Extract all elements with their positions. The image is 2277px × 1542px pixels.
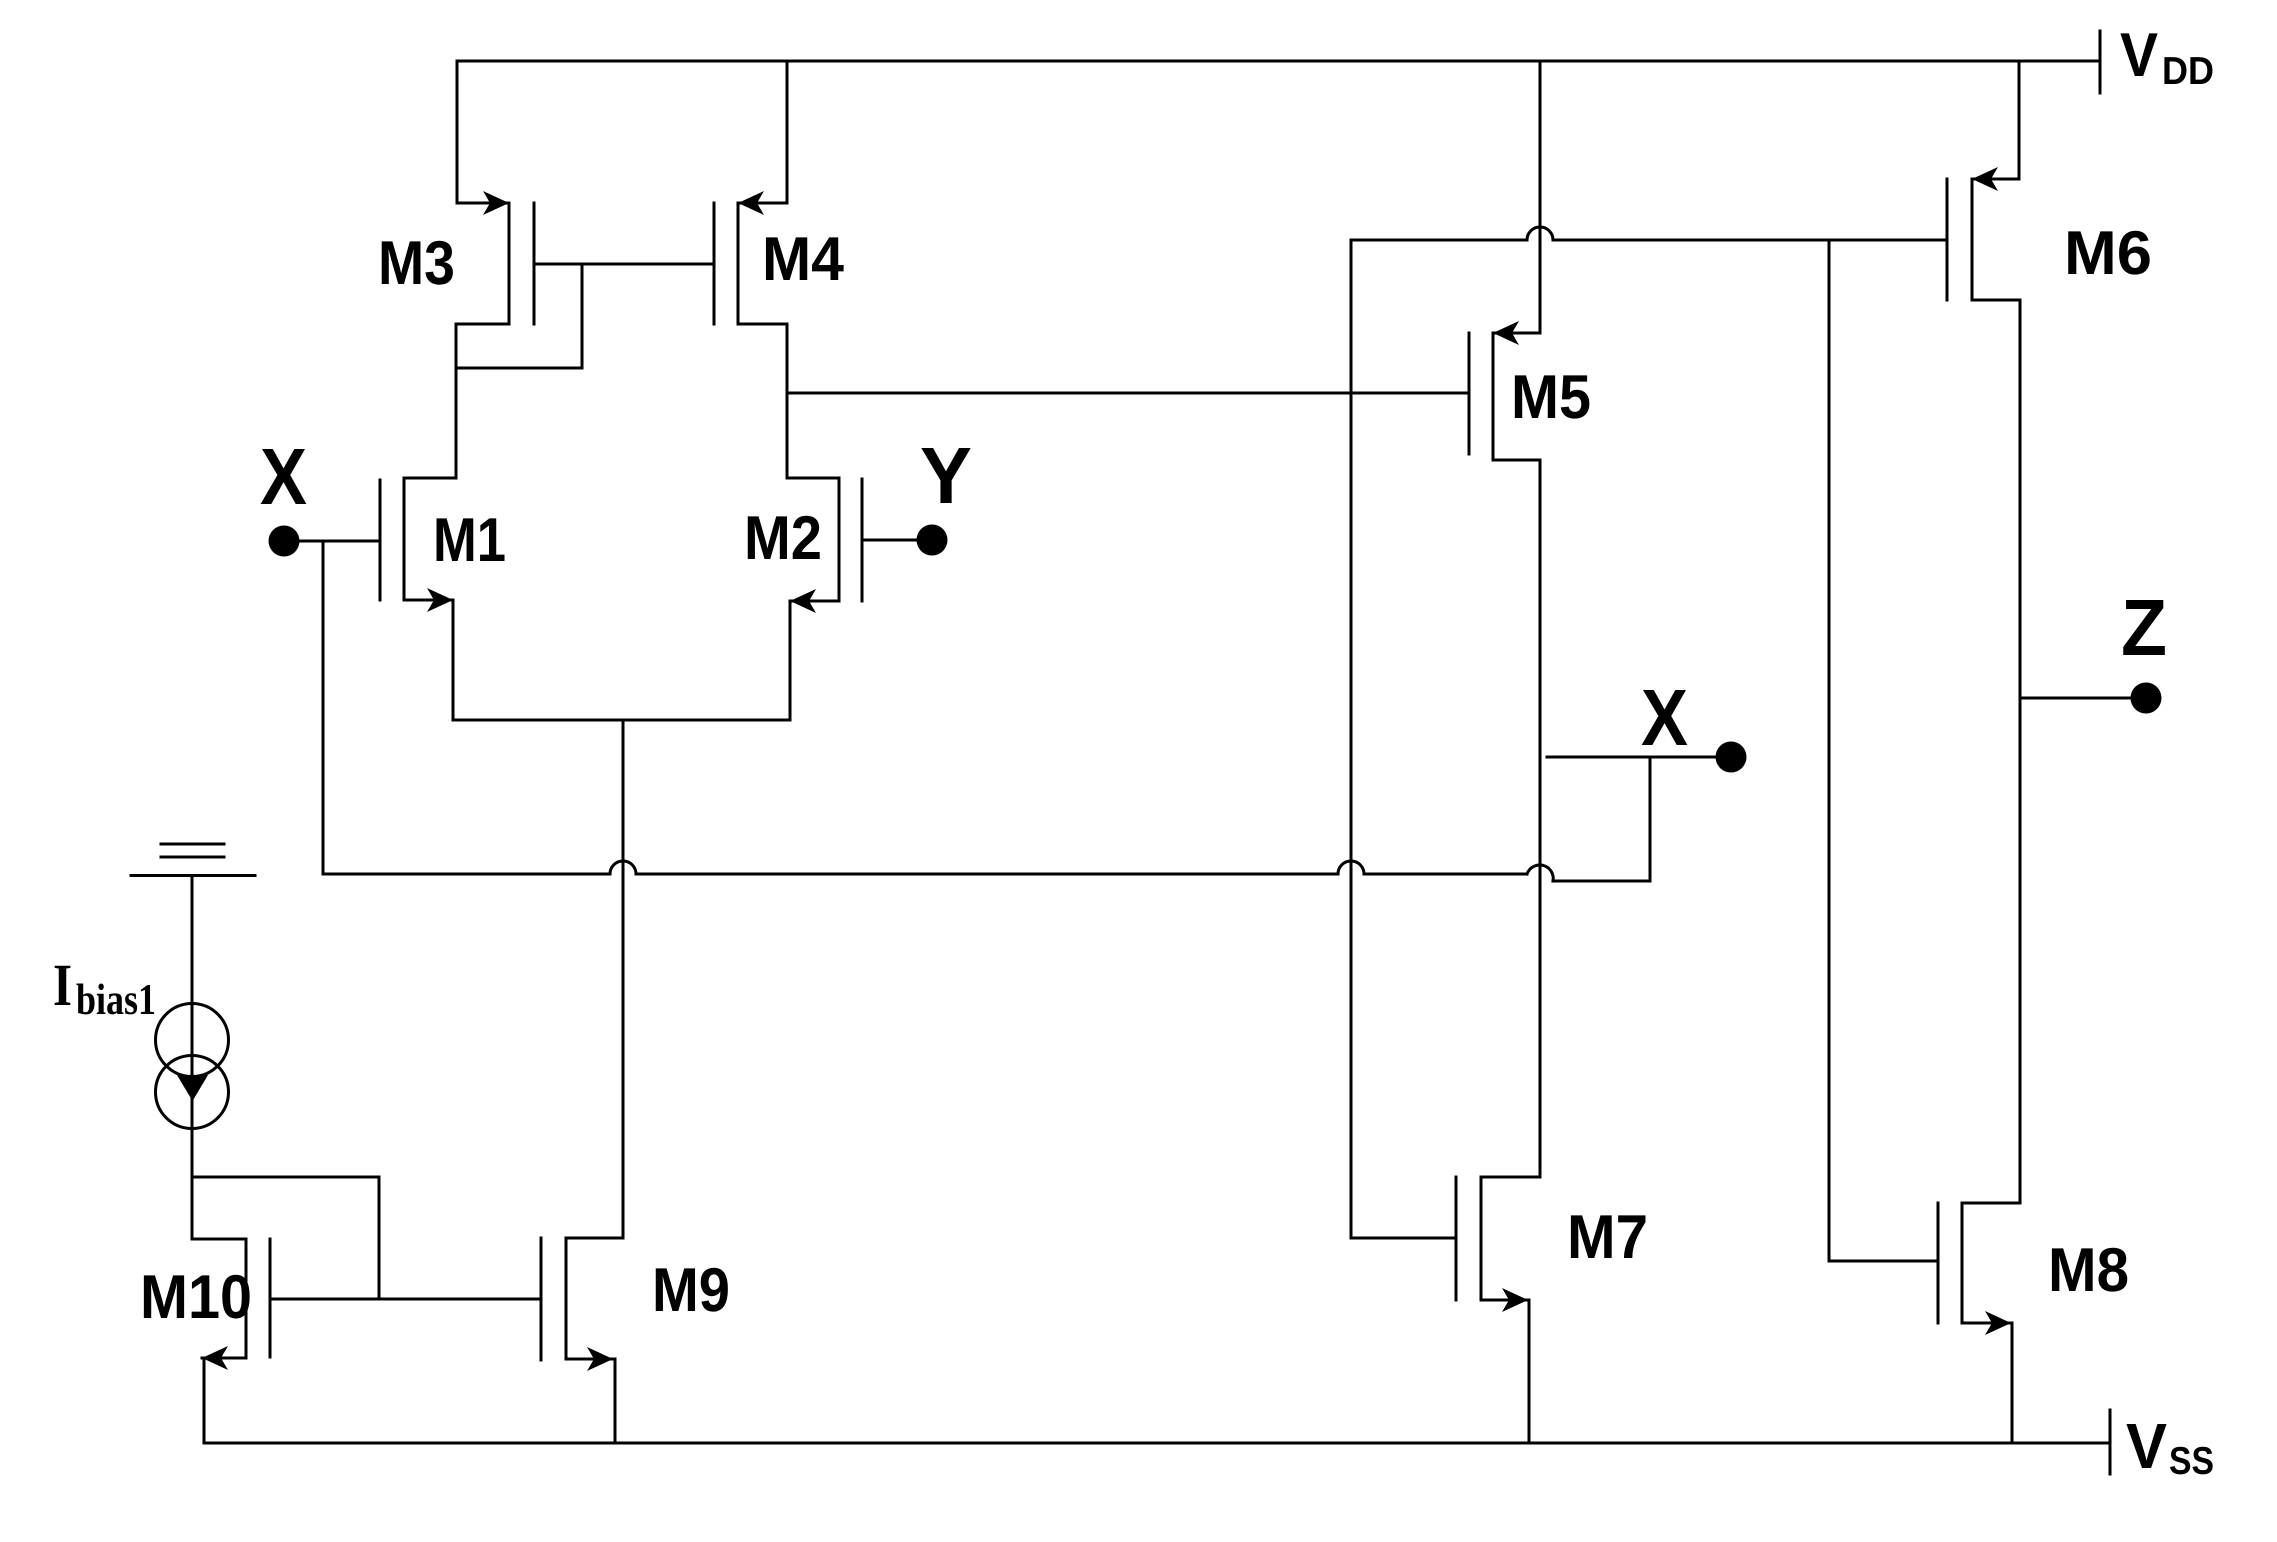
transistor M5: [1469, 321, 1540, 460]
svg-text:bias1: bias1: [76, 975, 156, 1024]
wire M6/M7/M8 gate bus: [1351, 239, 1947, 242]
wire Ibias to M9/M10 gates: [192, 1177, 379, 1299]
hop gate bus over M5 source wire: [1527, 227, 1553, 240]
wire M8 gate lead: [1829, 1260, 1938, 1263]
svg-text:V: V: [2120, 21, 2158, 90]
wire M1 gate lead: [300, 540, 380, 543]
svg-text:M6: M6: [2064, 219, 2152, 288]
svg-text:Z: Z: [2121, 583, 2167, 672]
wire tail horizontal: [453, 719, 790, 722]
wire M3 gate-drain tie: [456, 264, 582, 368]
wire M10-M9 gate bus: [270, 1298, 541, 1301]
wire M3-M4 gate bus: [534, 263, 714, 266]
svg-text:M1: M1: [433, 506, 506, 575]
wire X bus to X node: [1547, 757, 1716, 881]
svg-text:M2: M2: [744, 504, 822, 573]
wire VDD to M5 source: [1539, 61, 1542, 333]
svg-text:SS: SS: [2169, 1440, 2214, 1483]
svg-text:M4: M4: [762, 225, 844, 294]
node Z dot: [2131, 683, 2162, 714]
VSS rail: [204, 1410, 2110, 1474]
hop over tail wire: [610, 861, 636, 874]
wire M1 source down: [452, 600, 455, 720]
ground symbol: [131, 844, 255, 876]
svg-text:M3: M3: [378, 229, 455, 298]
wire M8 source to VSS: [2011, 1323, 2014, 1443]
wire M9 source to VSS: [614, 1359, 617, 1443]
wire Z node: [2020, 697, 2131, 700]
wire VDD to M4 source: [786, 61, 789, 203]
transistor M2: [787, 478, 862, 613]
wire M4 drain to M5 gate: [787, 392, 1469, 395]
node X right dot: [1716, 742, 1747, 773]
hop over M7 gate wire: [1338, 861, 1364, 874]
svg-text:I: I: [53, 952, 72, 1018]
node Y input dot: [917, 525, 948, 556]
svg-text:X: X: [260, 432, 307, 521]
transistor M7: [1456, 1177, 1540, 1312]
wire M2 source down: [789, 601, 792, 720]
wire X gate branch down: [322, 541, 325, 874]
label VDD: [2120, 21, 2214, 93]
wire M7 source to VSS: [1528, 1300, 1531, 1443]
transistor M8: [1938, 1203, 2020, 1335]
wire VDD to M6 source: [2018, 61, 2021, 179]
transistor M10: [192, 1239, 270, 1370]
wire M5 drain to M7 drain: [1539, 460, 1542, 1177]
wire VDD to M3 source: [456, 61, 459, 203]
transistor M1: [380, 478, 456, 612]
wire tail to M9 drain: [622, 720, 625, 1238]
current source Ibias1: [156, 876, 229, 1240]
svg-text:DD: DD: [2162, 50, 2214, 93]
svg-text:V: V: [2126, 1410, 2167, 1482]
transistor M6: [1947, 167, 2020, 300]
svg-text:X: X: [1641, 673, 1688, 762]
svg-text:M10: M10: [140, 1263, 252, 1332]
label VSS: [2126, 1410, 2214, 1483]
wire X bus horizontal: [323, 873, 1527, 876]
wire M10 source to VSS: [203, 1358, 206, 1443]
svg-text:M8: M8: [2048, 1236, 2129, 1305]
wire M7 gate vertical: [1350, 240, 1353, 1238]
svg-text:M5: M5: [1511, 363, 1591, 432]
label Ibias1: [53, 952, 156, 1024]
wire M6 drain to M8 drain: [2019, 300, 2022, 1203]
wire M8 gate vertical: [1828, 240, 1831, 1261]
transistor M9: [541, 1238, 623, 1371]
wire M4 drain to M2 drain: [786, 324, 789, 478]
VDD rail: [457, 31, 2100, 93]
hop over M5 drain wire: [1527, 865, 1553, 881]
transistor M4: [714, 191, 787, 324]
node X input dot: [269, 526, 300, 557]
svg-text:M9: M9: [652, 1256, 730, 1325]
wire M7 gate lead: [1351, 1237, 1456, 1240]
svg-text:M7: M7: [1567, 1203, 1648, 1272]
wire M2 gate lead: [862, 539, 916, 542]
transistor M3: [457, 191, 534, 324]
wire M3 drain to M1 drain: [455, 324, 458, 478]
svg-text:Y: Y: [920, 431, 972, 520]
